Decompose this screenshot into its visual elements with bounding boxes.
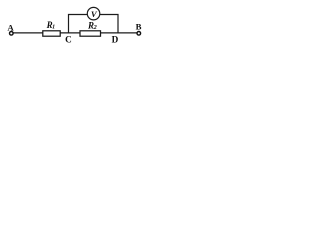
svg-text:B: B [136,22,142,32]
svg-text:A: A [7,22,14,32]
svg-text:1: 1 [52,24,55,30]
svg-text:2: 2 [93,24,97,31]
svg-text:C: C [65,35,72,45]
svg-text:D: D [112,34,119,44]
